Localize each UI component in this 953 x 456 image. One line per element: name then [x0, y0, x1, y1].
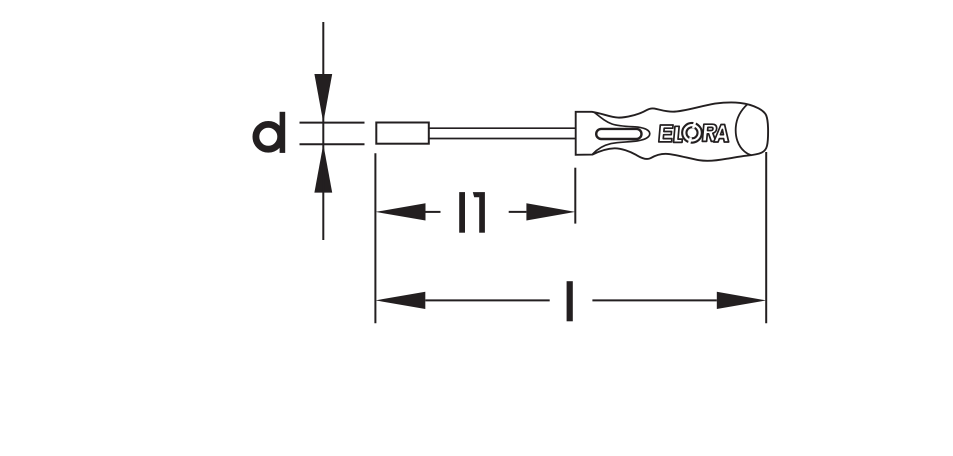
shaft top line — [429, 127, 576, 129]
dimension line d vertical top segment — [322, 22, 324, 146]
label l — [567, 281, 573, 321]
ELORA logo letter O ring — [682, 121, 702, 145]
ELORA logo letters E L — [659, 125, 684, 142]
dimension l1 right arrowhead — [526, 203, 575, 220]
handle blade recess (leaf) — [593, 112, 650, 154]
handle end cap seam — [736, 104, 752, 155]
ELORA logo letters R A — [702, 124, 730, 142]
dimension line d vertical bottom segment — [322, 146, 324, 240]
socket tip — [376, 123, 429, 144]
extension line d bottom — [300, 143, 365, 145]
extension line d top — [300, 122, 365, 124]
label d — [256, 112, 285, 153]
arrowhead d bottom — [314, 144, 332, 192]
dimension l1 left arrowhead — [375, 203, 425, 220]
dimension l right line — [592, 299, 716, 301]
dimension l left arrowhead — [375, 292, 425, 309]
dimension l1 left line stub — [426, 211, 441, 213]
dimension l right arrowhead — [717, 292, 766, 309]
handle silhouette — [576, 102, 768, 160]
dimension l1 right line stub — [509, 211, 527, 213]
extension line l right — [765, 152, 767, 323]
label l1 — [459, 192, 485, 233]
extension line l1 right — [574, 168, 576, 224]
dimension l left line — [425, 299, 549, 301]
extension line left (shared l1 and l) — [374, 153, 376, 323]
arrowhead d top — [314, 74, 332, 123]
handle slot — [596, 129, 641, 139]
shaft bottom line — [429, 138, 576, 140]
